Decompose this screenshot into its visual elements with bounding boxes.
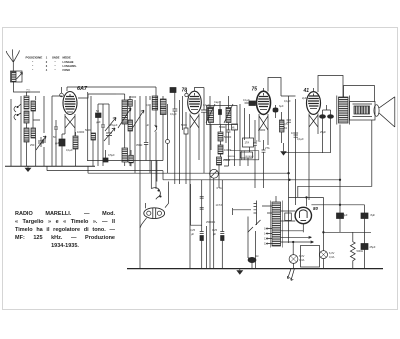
svg-text:ONDE: ONDE	[52, 55, 60, 59]
svg-text:25μF: 25μF	[370, 245, 376, 249]
svg-text:”: ”	[32, 60, 34, 64]
svg-text:3: 3	[46, 64, 48, 68]
svg-text:25000: 25000	[223, 158, 231, 162]
svg-text:”: ”	[32, 68, 34, 72]
svg-text:”: ”	[32, 64, 34, 68]
svg-text:8μF: 8μF	[343, 213, 348, 217]
svg-text:8μF: 8μF	[371, 213, 376, 217]
svg-text:0,1μF: 0,1μF	[66, 148, 73, 152]
svg-text:6A7: 6A7	[77, 86, 88, 92]
svg-text:0,1μF: 0,1μF	[297, 137, 304, 141]
svg-text:300Ω: 300Ω	[160, 106, 166, 110]
svg-text:μμF: μμF	[55, 141, 60, 145]
svg-text:1TA: 1TA	[256, 139, 261, 143]
svg-text:75: 75	[252, 87, 258, 93]
svg-text:0,1μF: 0,1μF	[284, 99, 291, 103]
svg-text:FONO: FONO	[63, 68, 71, 72]
svg-text:”: ”	[55, 68, 57, 72]
svg-text:6 TA: 6 TA	[217, 186, 223, 190]
svg-text:78: 78	[182, 88, 188, 94]
svg-text:125kc: 125kc	[232, 129, 237, 131]
svg-text:6,3V: 6,3V	[299, 254, 305, 258]
svg-text:10 TA: 10 TA	[216, 203, 223, 207]
svg-text:VERDE: VERDE	[228, 156, 236, 158]
svg-text:2TA: 2TA	[265, 146, 270, 150]
svg-text:0,1: 0,1	[146, 103, 150, 107]
svg-text:Cap: Cap	[214, 100, 219, 104]
svg-text:0,1μF: 0,1μF	[203, 103, 210, 107]
svg-text:0,3A: 0,3A	[329, 255, 335, 259]
svg-text:25μμF: 25μμF	[110, 123, 118, 127]
svg-text:20000: 20000	[129, 95, 137, 99]
svg-text:LUNGHE: LUNGHE	[63, 60, 74, 64]
svg-text:250: 250	[30, 143, 35, 147]
svg-text:50000: 50000	[224, 135, 232, 139]
svg-text:125: 125	[264, 237, 269, 241]
svg-text:50: 50	[96, 109, 99, 113]
svg-text:0,1μF: 0,1μF	[170, 112, 177, 116]
svg-text:5000: 5000	[181, 123, 187, 127]
svg-text:”: ”	[55, 60, 57, 64]
svg-text:0,25: 0,25	[190, 228, 196, 232]
svg-text:ROSSO: ROSSO	[246, 156, 254, 158]
svg-text:140: 140	[264, 232, 269, 236]
svg-text:1TA: 1TA	[245, 141, 250, 145]
svg-text:160: 160	[264, 227, 269, 231]
svg-text:0,5μF: 0,5μF	[108, 153, 115, 157]
svg-text:μF: μF	[213, 232, 216, 236]
svg-text:4: 4	[46, 68, 48, 72]
svg-text:2μF: 2μF	[302, 96, 307, 100]
svg-text:41: 41	[303, 88, 310, 94]
svg-text:2: 2	[46, 60, 48, 64]
svg-text:0,3A: 0,3A	[299, 258, 305, 262]
svg-text:25000: 25000	[258, 128, 266, 132]
svg-text:μF: μF	[146, 123, 149, 127]
svg-text:TA: TA	[284, 126, 287, 130]
svg-text:80: 80	[313, 206, 319, 211]
svg-text:6,3V: 6,3V	[329, 251, 335, 255]
svg-text:0,1μF: 0,1μF	[243, 98, 250, 102]
svg-text:POSIZIONE: POSIZIONE	[26, 55, 43, 59]
svg-text:500Ω: 500Ω	[219, 125, 225, 129]
svg-text:10000: 10000	[224, 148, 232, 152]
svg-text:110: 110	[264, 242, 269, 246]
svg-text:10000: 10000	[291, 131, 299, 135]
svg-text:μμF: μμF	[96, 120, 101, 124]
svg-text:5000: 5000	[85, 128, 91, 132]
svg-text:δμF: δμF	[279, 104, 284, 108]
svg-text:MEDIE: MEDIE	[63, 55, 71, 59]
svg-text:0,5: 0,5	[284, 122, 288, 126]
svg-text:25000Ω: 25000Ω	[206, 220, 215, 224]
svg-text:350Ω: 350Ω	[136, 143, 142, 147]
svg-text:”: ”	[55, 64, 57, 68]
svg-text:4Ω: 4Ω	[255, 254, 258, 258]
svg-text:10000: 10000	[77, 130, 85, 134]
svg-text:0,25: 0,25	[212, 228, 218, 232]
svg-text:25μF: 25μF	[320, 130, 326, 134]
svg-text:LUNGHISS.: LUNGHISS.	[63, 64, 77, 68]
svg-text:500Ω: 500Ω	[357, 249, 363, 253]
svg-text:1: 1	[46, 55, 48, 59]
svg-text:μF: μF	[191, 232, 194, 236]
svg-text:P.U.: P.U.	[27, 90, 31, 92]
